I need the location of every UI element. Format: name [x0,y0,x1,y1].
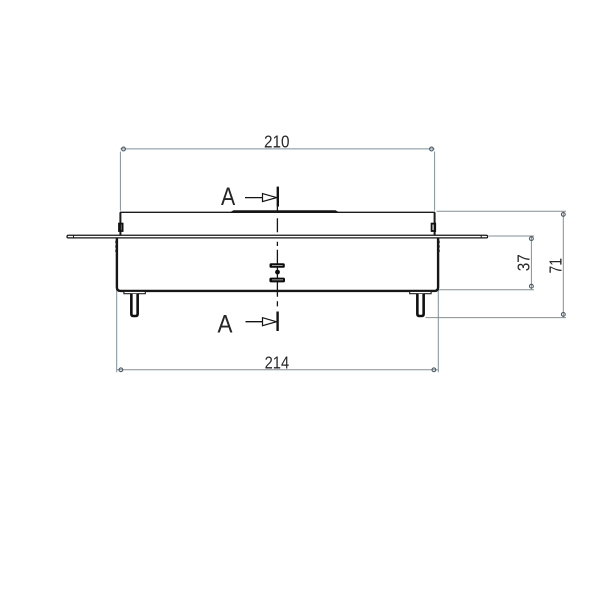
dimension line 214 [117,369,438,371]
section tick bottom [276,312,278,332]
clip right wall [432,224,436,231]
foot leg left [131,294,137,316]
section arrow top [245,197,263,199]
svg-text:71: 71 [546,258,566,274]
burner pill top [270,263,285,268]
foot leg right [417,294,423,316]
dimension line 71 [562,211,564,317]
extension line left of 210 [119,152,121,211]
extension line right of 210 [434,152,436,211]
svg-text:A: A [218,310,233,338]
extension line top of 71 [437,210,567,212]
extension line top of 37 [489,235,535,237]
svg-text:A: A [221,183,235,211]
foot pad left [124,291,145,293]
upper box right wall [434,212,436,235]
upper box top edge [120,211,435,213]
upper box left wall [119,212,121,235]
dimension line 37 [530,236,532,290]
clip left wall [119,224,123,231]
svg-text:37: 37 [514,254,534,271]
weld ticks left wall [115,241,117,252]
section arrow bottom [246,321,263,323]
extension line bottom of 37 [439,289,534,291]
dimension line 210 [120,148,434,150]
lower box body outline [117,239,438,291]
flange end tick left [73,235,75,238]
extension line bottom of 71 [426,317,567,319]
centerline (dash-dot) [276,207,278,307]
burner pill bottom [269,278,285,283]
extension line left of 214 [116,240,118,373]
svg-text:210: 210 [264,131,290,151]
flange end tick right [480,235,482,238]
extension line right of 214 [437,240,439,373]
svg-text:214: 214 [265,352,290,372]
flange [67,235,488,238]
lid raised segment [229,210,340,213]
section tick top [277,187,279,207]
foot pad right [410,291,431,293]
weld ticks right wall [438,241,440,252]
burner dot [275,270,280,275]
